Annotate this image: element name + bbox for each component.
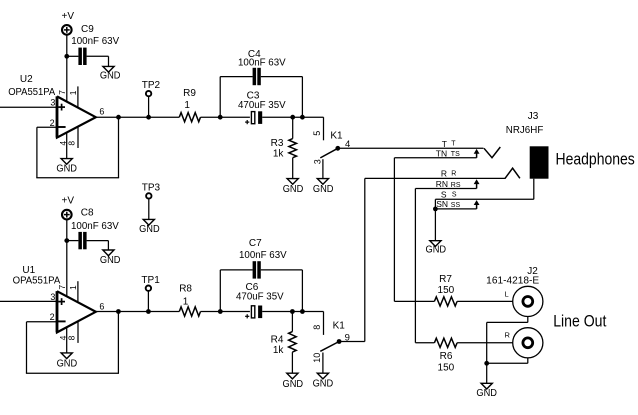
svg-text:R: R	[451, 171, 456, 178]
svg-text:GND: GND	[476, 388, 497, 399]
node TP1 tap	[146, 309, 151, 314]
label S	[441, 189, 457, 199]
svg-text:TP1: TP1	[141, 275, 160, 286]
svg-text:3: 3	[50, 98, 55, 108]
svg-text:R8: R8	[179, 284, 192, 295]
wire RN	[415, 188, 476, 190]
test point TP2	[142, 80, 161, 117]
relay K1 upper pin 4 node	[335, 139, 350, 151]
ground R3	[283, 179, 304, 196]
svg-text:U1: U1	[22, 265, 35, 276]
wire R to jack ring	[365, 177, 506, 179]
U2 pin 7	[57, 90, 67, 95]
svg-text:470uF 35V: 470uF 35V	[236, 292, 284, 303]
ground U2 pin 4	[56, 159, 77, 175]
svg-text:C7: C7	[249, 238, 262, 249]
svg-text:GND: GND	[283, 184, 304, 195]
relay K1 upper pin 5	[312, 131, 322, 136]
node C4 left tap	[218, 115, 223, 120]
wire U2 feedback	[36, 117, 119, 178]
svg-text:TS: TS	[451, 151, 460, 158]
U1 pin 1	[68, 281, 78, 302]
node U2 output	[116, 115, 121, 120]
label J2	[527, 266, 538, 277]
node jack shells junction	[484, 361, 489, 366]
U1 pin 7	[57, 285, 67, 290]
svg-text:R: R	[505, 331, 511, 340]
wire R9 to C3	[201, 116, 250, 118]
relay K1 label upper	[330, 130, 343, 141]
svg-text:100nF 63V: 100nF 63V	[71, 221, 119, 232]
svg-text:GND: GND	[100, 70, 121, 81]
relay K1 label lower	[333, 320, 346, 331]
svg-text:NRJ6HF: NRJ6HF	[506, 125, 544, 136]
svg-text:1: 1	[68, 90, 78, 95]
wire TN to R7	[394, 158, 434, 302]
label Headphones	[556, 151, 635, 169]
wire C3 to K1 pin 5	[262, 117, 323, 140]
resistor R9	[179, 88, 200, 122]
svg-text:SS: SS	[451, 202, 461, 209]
svg-text:2: 2	[50, 118, 55, 128]
wire U1 output to R8	[96, 311, 180, 313]
U2 pin 1	[68, 86, 78, 107]
svg-text:100nF 63V: 100nF 63V	[239, 250, 287, 261]
jack J3 TN arrow	[474, 149, 480, 158]
wire U1 feedback	[26, 312, 119, 374]
svg-text:150: 150	[438, 285, 455, 296]
wire RN to R6	[415, 189, 434, 343]
node R4 tap	[290, 309, 295, 314]
svg-text:C9: C9	[81, 24, 94, 35]
ground U1 pin 4	[57, 353, 78, 369]
U2 pin 4	[58, 132, 68, 158]
U1 pin 8	[67, 322, 78, 343]
label R	[505, 331, 511, 340]
jack J3 SN arrow	[474, 200, 480, 209]
svg-text:100nF 63V: 100nF 63V	[71, 36, 119, 47]
node U1 output	[116, 309, 121, 314]
svg-text:1: 1	[183, 297, 189, 308]
wire junction to C8	[67, 240, 79, 242]
ground K1 pin 3	[313, 179, 334, 196]
U1 pin 2 label	[50, 312, 55, 322]
svg-text:GND: GND	[426, 244, 447, 255]
svg-text:7: 7	[57, 285, 67, 290]
wire jack L shell to ground	[487, 317, 528, 384]
svg-text:S: S	[441, 189, 447, 199]
resistor R6	[434, 338, 457, 373]
wire SN	[435, 208, 476, 210]
svg-text:GND: GND	[313, 184, 334, 195]
svg-text:6: 6	[99, 301, 104, 311]
svg-text:100nF 63V: 100nF 63V	[238, 58, 286, 69]
svg-text:8: 8	[312, 325, 322, 330]
wire TN	[394, 157, 476, 159]
svg-text:1k: 1k	[273, 345, 285, 356]
wire U1 pin 2 input	[27, 321, 58, 323]
svg-text:2: 2	[50, 312, 55, 322]
svg-text:TP3: TP3	[142, 182, 161, 193]
label TN TS	[436, 148, 460, 158]
svg-text:1: 1	[68, 285, 78, 290]
label T	[442, 139, 457, 149]
wire jack R shell to ground	[487, 358, 528, 363]
svg-text:1k: 1k	[273, 149, 285, 160]
svg-text:TP2: TP2	[142, 80, 161, 91]
label L	[505, 290, 509, 299]
ground R4	[283, 373, 304, 390]
U1 pin 4	[58, 327, 68, 353]
capacitor C6 polarized	[236, 282, 284, 319]
svg-text:L: L	[505, 290, 509, 299]
svg-text:Line Out: Line Out	[553, 312, 607, 330]
wire S	[435, 198, 533, 200]
svg-text:GND: GND	[313, 378, 334, 389]
resistor R3	[271, 117, 297, 178]
capacitor C4	[238, 49, 286, 85]
svg-text:SN: SN	[436, 199, 448, 209]
ground TP3	[139, 219, 160, 235]
svg-text:470uF 35V: 470uF 35V	[238, 100, 286, 111]
jack J3 body	[530, 146, 549, 178]
svg-text:8: 8	[67, 141, 77, 146]
U2 pin 2 label	[50, 118, 55, 128]
svg-text:R6: R6	[440, 351, 453, 362]
svg-text:150: 150	[438, 362, 455, 373]
wire junction to C9	[67, 55, 79, 57]
U1 pin 3 label	[50, 292, 55, 302]
svg-text:+V: +V	[62, 11, 75, 22]
relay K1 lower pin 9 node	[337, 333, 350, 344]
svg-text:OPA551PA: OPA551PA	[8, 87, 55, 98]
jack J3 RN arrow	[474, 179, 480, 188]
capacitor C3 polarized	[238, 90, 286, 124]
ground jack sleeve	[426, 241, 447, 256]
svg-text:8: 8	[67, 335, 77, 340]
svg-text:161-4218-E: 161-4218-E	[486, 275, 539, 286]
label NRJ6HF	[506, 125, 544, 136]
ground C8	[100, 250, 121, 266]
label Line Out	[553, 312, 607, 330]
op-amp U2	[8, 74, 96, 138]
relay K1 lower lever	[320, 342, 339, 352]
label RN RS	[436, 179, 461, 189]
wire R7 to jack L	[457, 300, 513, 302]
label 161-4218-E	[486, 275, 539, 286]
wire R line to K1 pin 9	[339, 178, 365, 341]
op-amp U1	[13, 265, 96, 332]
jack J3 ring contact	[505, 168, 520, 178]
power +V (U1 supply)	[62, 196, 75, 220]
svg-text:+V: +V	[62, 196, 75, 207]
svg-text:3: 3	[50, 292, 55, 302]
jack J3 tip contact	[484, 147, 500, 158]
capacitor C8	[71, 208, 119, 250]
wire R6 to jack R	[457, 342, 513, 344]
svg-text:7: 7	[57, 90, 67, 95]
node C4 right tap	[300, 115, 305, 120]
svg-text:R7: R7	[439, 274, 452, 285]
node TP2 tap	[146, 115, 151, 120]
label SN SS	[436, 199, 460, 209]
resistor R7	[434, 274, 457, 306]
wire +V to U1 pin 7	[66, 219, 68, 297]
node R3 tap	[290, 115, 295, 120]
relay K1 lower pin 10	[312, 353, 323, 374]
wire U2 pin 3 input	[0, 106, 57, 108]
svg-text:Headphones: Headphones	[556, 151, 635, 169]
label J3	[528, 111, 539, 122]
svg-text:T: T	[442, 139, 447, 149]
svg-text:C8: C8	[81, 208, 94, 219]
wire C7 branch left	[220, 270, 252, 312]
svg-text:R: R	[441, 169, 447, 179]
wire S/SN to ground	[434, 199, 436, 240]
U1 pin 6 label	[99, 301, 104, 311]
U2 pin 6 label	[99, 106, 104, 116]
svg-text:GND: GND	[56, 164, 77, 175]
relay K1 upper pin 3	[313, 159, 323, 178]
label R	[441, 169, 457, 179]
wire K1 pin 4 to jack T	[338, 147, 484, 149]
wire +V to U2 pin 7	[66, 34, 68, 102]
wire C6 to K1 pin 8	[262, 312, 323, 335]
svg-text:3: 3	[313, 159, 323, 164]
test point TP3	[142, 182, 161, 219]
wire U1 pin 3 input	[0, 300, 57, 302]
wire C9 to ground	[87, 56, 109, 66]
power +V (U2 supply)	[62, 11, 75, 35]
svg-text:RN: RN	[436, 179, 448, 189]
svg-text:GND: GND	[139, 224, 160, 235]
svg-text:TN: TN	[436, 148, 447, 158]
wire C4 branch left	[220, 77, 252, 118]
svg-text:U2: U2	[20, 74, 33, 85]
wire U2 pin 2 input	[37, 126, 57, 128]
svg-text:1: 1	[184, 100, 190, 111]
node C7 left tap	[218, 309, 223, 314]
wire C7 branch right	[261, 270, 303, 312]
relay K1 lower pin 8	[312, 325, 322, 330]
svg-text:9: 9	[345, 333, 350, 344]
resistor R4	[271, 312, 297, 374]
wire jack body to S	[533, 179, 535, 200]
ground K1 pin 10	[313, 373, 334, 389]
U2 pin 8	[67, 127, 78, 148]
node supply/C8 junction	[64, 238, 69, 243]
node supply/C9 junction	[64, 54, 69, 59]
svg-text:6: 6	[99, 106, 104, 116]
svg-text:RS: RS	[451, 182, 461, 189]
wire U2 output to R9	[96, 116, 180, 118]
rca jack J2 L	[513, 286, 543, 316]
svg-text:K1: K1	[333, 320, 346, 331]
relay K1 upper lever	[320, 148, 338, 158]
svg-text:5: 5	[312, 131, 322, 136]
svg-text:T: T	[451, 141, 456, 148]
node SN junction	[433, 207, 438, 212]
wire C8 to ground	[87, 241, 109, 250]
svg-text:J3: J3	[528, 111, 539, 122]
rca jack J2 R	[513, 328, 543, 358]
svg-text:S: S	[452, 192, 457, 199]
capacitor C7	[239, 238, 287, 279]
U2 pin 3 label	[50, 98, 55, 108]
test point TP1	[141, 275, 160, 312]
ground C9	[100, 66, 121, 81]
capacitor C9	[71, 24, 119, 65]
svg-text:K1: K1	[330, 130, 343, 141]
svg-text:R9: R9	[183, 88, 196, 99]
svg-text:GND: GND	[100, 255, 121, 266]
ground J2	[476, 383, 497, 399]
svg-text:OPA551PA: OPA551PA	[13, 275, 61, 286]
resistor R8	[179, 284, 200, 317]
node C7 right tap	[300, 309, 305, 314]
svg-text:GND: GND	[57, 358, 78, 369]
wire C4 branch right	[261, 77, 303, 118]
svg-text:10: 10	[312, 353, 322, 363]
wire R8 to C6	[201, 311, 250, 313]
svg-text:GND: GND	[283, 379, 304, 390]
